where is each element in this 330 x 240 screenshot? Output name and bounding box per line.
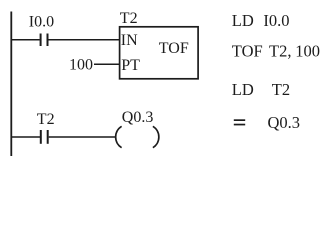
svg-text:PT: PT <box>121 57 140 74</box>
instruction line 4 = <box>234 119 245 125</box>
svg-text:T2: T2 <box>272 80 290 99</box>
svg-text:T2: T2 <box>120 10 138 27</box>
svg-text:IN: IN <box>121 32 138 49</box>
svg-text:100: 100 <box>69 56 93 73</box>
svg-text:T2,: T2, <box>269 42 291 61</box>
wire rung1 rail to contact I0.0 <box>11 39 40 41</box>
svg-text:TOF: TOF <box>232 42 263 61</box>
left power rail <box>10 12 12 157</box>
svg-text:I0.0: I0.0 <box>29 13 54 30</box>
svg-text:Q0.3: Q0.3 <box>122 109 154 126</box>
wire rung2 rail to contact T2 <box>11 136 40 138</box>
svg-text:LD: LD <box>232 11 254 30</box>
wire contact I0.0 to TOF box IN <box>49 39 120 41</box>
contact T2 <box>41 130 48 144</box>
contact I0.0 <box>41 34 48 47</box>
svg-text:100: 100 <box>295 42 320 61</box>
wire contact T2 to coil <box>49 136 115 138</box>
svg-text:TOF: TOF <box>159 40 189 57</box>
timer box T2 TOF <box>120 27 199 79</box>
svg-text:I0.0: I0.0 <box>263 11 289 30</box>
svg-text:T2: T2 <box>37 111 55 128</box>
wire 100 to PT <box>94 63 120 65</box>
coil Q0.3 <box>116 126 159 147</box>
svg-text:LD: LD <box>232 80 254 99</box>
svg-text:Q0.3: Q0.3 <box>268 113 301 132</box>
